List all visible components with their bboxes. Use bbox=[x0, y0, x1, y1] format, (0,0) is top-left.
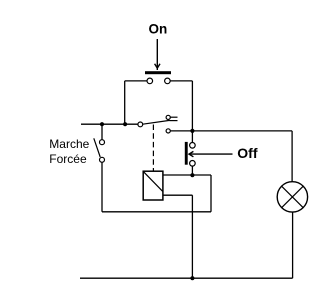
node junction neutral bus bbox=[190, 276, 194, 280]
On pointer arrow shaft bbox=[156, 39, 158, 70]
svg-text:Off: Off bbox=[237, 145, 258, 161]
relay contact K1 output circle bbox=[166, 129, 170, 133]
switch S2 (Marche Forcee) top circle bbox=[100, 140, 105, 145]
pushbutton S3 bottom contact circle bbox=[190, 161, 196, 167]
pushbutton S1 (On) actuator bar bbox=[145, 71, 171, 74]
node junction feed / marche forcee bbox=[100, 122, 104, 126]
wire S1 left leg down bbox=[124, 81, 126, 124]
pushbutton S1 left contact circle bbox=[147, 78, 153, 84]
relay contact K1 common circle bbox=[138, 122, 143, 127]
node junction off / coil top wire bbox=[190, 173, 194, 177]
wire S1 right horizontal bbox=[170, 80, 192, 82]
pushbutton S3 (Off) actuator bar bbox=[185, 142, 188, 165]
relay contact K1 arm bbox=[143, 120, 170, 124]
pushbutton S3 top contact circle bbox=[190, 143, 196, 149]
svg-text:On: On bbox=[149, 22, 168, 37]
relay coil K1 diagonal bbox=[144, 172, 163, 192]
On pointer arrowhead bbox=[155, 64, 160, 68]
pushbutton S1 right contact circle bbox=[165, 78, 171, 84]
node junction S1 right / off button bbox=[190, 129, 194, 133]
wire bottom link horizontal bbox=[102, 211, 211, 213]
svg-text:Forcée: Forcée bbox=[49, 152, 87, 166]
Off pointer arrowhead bbox=[189, 151, 193, 156]
relay contact K1 moving bar bbox=[170, 120, 178, 122]
switch S2 blade bbox=[94, 138, 100, 157]
relay contact K1 fixed bar bbox=[170, 116, 177, 118]
wire lamp bottom leg bbox=[292, 212, 294, 278]
wire right drop bbox=[210, 175, 212, 212]
wire off button top link bbox=[191, 131, 193, 143]
relay contact K1 fixed circle bbox=[166, 115, 170, 119]
wire off button bottom link bbox=[191, 166, 193, 175]
svg-text:Marche: Marche bbox=[49, 137, 89, 151]
relay coil K1 box bbox=[143, 171, 163, 200]
node junction feed / S1 left bbox=[123, 122, 127, 126]
relay mechanical link (dashed) bbox=[152, 125, 154, 172]
wire marche forcee top leg bbox=[101, 124, 103, 140]
wire marche forcee bottom leg bbox=[101, 162, 103, 212]
lamp L1 cross stroke 2 bbox=[282, 186, 304, 208]
wire neutral bus bbox=[80, 277, 293, 279]
wire coil lower terminal bbox=[163, 194, 193, 196]
wire lamp feed vertical bbox=[291, 131, 293, 182]
lamp L1 circle bbox=[277, 182, 307, 212]
wire phase feed bbox=[81, 123, 138, 125]
wire lamp feed horizontal bbox=[170, 130, 292, 132]
switch S2 bottom circle bbox=[100, 157, 105, 162]
wire S1 right leg down bbox=[191, 81, 193, 131]
Off pointer arrow shaft bbox=[189, 153, 233, 155]
wire coil to neutral drop bbox=[191, 195, 193, 278]
wire coil upper terminal bbox=[163, 174, 211, 176]
lamp L1 cross stroke 1 bbox=[282, 186, 304, 208]
wire S1 left horizontal bbox=[125, 80, 148, 82]
